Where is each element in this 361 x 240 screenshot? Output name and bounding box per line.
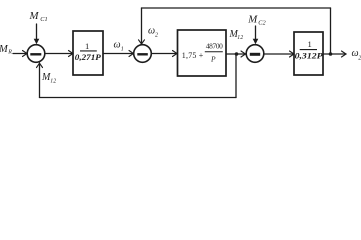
wire bottom feedback right vertical <box>235 54 237 98</box>
svg-text:12: 12 <box>237 35 243 41</box>
summing junction S3 <box>246 45 264 63</box>
wire bottom feedback horizontal <box>40 97 237 99</box>
block B3 transfer function 1/0.312P <box>294 32 323 75</box>
svg-text:R: R <box>7 49 12 55</box>
label M_R <box>0 44 12 55</box>
minus sign in S1 <box>30 53 41 55</box>
svg-text:1: 1 <box>121 47 124 53</box>
wire S2 to block B2 <box>152 53 178 55</box>
value label 1/0.271P <box>75 41 101 62</box>
arrowhead M_C2 into S3 (solid) <box>253 39 259 45</box>
arrowhead into S3 from left <box>241 51 246 57</box>
svg-text:1: 1 <box>308 39 312 49</box>
label M_12 above B2 output <box>229 29 244 41</box>
svg-text:ω: ω <box>114 40 121 51</box>
label M_C2 <box>247 13 266 26</box>
svg-text:M: M <box>247 13 258 25</box>
label omega_1 <box>114 40 124 53</box>
summing junction S1 <box>27 45 45 63</box>
junction dot at output feedback tap <box>329 52 333 56</box>
arrowhead into B1 <box>69 51 74 57</box>
wire M_C2 vertical into S3 <box>255 26 257 42</box>
svg-text:48700: 48700 <box>206 42 223 51</box>
label omega_2 above S2 <box>148 26 158 39</box>
value label 1/0.312P <box>295 39 323 61</box>
wire top feedback left vertical into summing junction S2 <box>141 8 143 44</box>
label M_12 lower left <box>41 72 56 85</box>
value label 1,75 + 48700/P <box>182 42 223 64</box>
svg-text:0,271P: 0,271P <box>75 53 101 62</box>
wire B2 to S3 <box>226 53 246 55</box>
arrowhead M_C1 into S1 (solid) <box>34 39 40 45</box>
wire B3 to output <box>323 53 346 55</box>
arrowhead into S2 from top <box>139 40 145 44</box>
wire bottom feedback left vertical into summing junction S1 <box>39 63 41 98</box>
svg-text:2: 2 <box>155 33 158 39</box>
svg-text:C2: C2 <box>258 19 266 26</box>
wire M_C1 vertical into S1 <box>36 24 38 42</box>
svg-text:0,312P: 0,312P <box>295 52 323 61</box>
wire B1 to S2 <box>103 53 134 55</box>
svg-text:C1: C1 <box>40 16 47 23</box>
arrowhead output <box>342 51 347 57</box>
svg-text:P: P <box>210 54 216 63</box>
minus sign in S2 <box>137 53 148 55</box>
wire top feedback right vertical <box>330 8 332 54</box>
wire input M_R to S1 <box>13 53 27 55</box>
wire S1 to block B1 <box>45 53 73 55</box>
junction dot at B2 output feedback tap <box>235 52 239 56</box>
arrowhead into B3 <box>290 51 295 57</box>
block B2 transfer function 1.75 + 48700/P <box>178 30 227 76</box>
svg-text:1,75 +: 1,75 + <box>182 51 204 60</box>
arrowhead into S1 from left <box>23 51 28 57</box>
label M_C1 <box>29 10 48 23</box>
svg-text:12: 12 <box>50 79 56 85</box>
svg-text:M: M <box>29 10 40 22</box>
arrowhead into B2 <box>173 51 178 57</box>
block B1 transfer function 1/0.271P <box>73 31 103 75</box>
svg-text:1: 1 <box>85 41 89 51</box>
wire top feedback horizontal <box>142 7 331 9</box>
arrowhead into S2 from left <box>129 51 134 57</box>
wire S3 to block B3 <box>264 53 294 55</box>
label omega_2 output <box>352 48 361 62</box>
minus sign in S3 <box>250 53 260 56</box>
arrowhead into S1 from bottom <box>37 63 43 67</box>
summing junction S2 <box>134 45 152 63</box>
svg-text:ω: ω <box>148 26 155 37</box>
